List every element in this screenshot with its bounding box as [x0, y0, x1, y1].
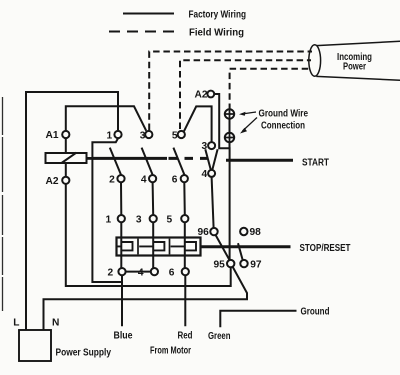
svg-text:1: 1	[106, 214, 112, 225]
svg-text:A2: A2	[45, 176, 58, 187]
svg-text:Connection: Connection	[261, 121, 305, 132]
svg-text:1: 1	[107, 130, 113, 141]
svg-text:98: 98	[250, 227, 262, 238]
svg-text:3: 3	[136, 214, 142, 225]
svg-text:Red: Red	[178, 331, 193, 342]
svg-text:2: 2	[109, 175, 115, 186]
svg-text:STOP/RESET: STOP/RESET	[300, 243, 352, 254]
svg-text:2: 2	[108, 268, 114, 279]
svg-text:3: 3	[202, 141, 208, 152]
svg-text:97: 97	[250, 259, 262, 270]
svg-text:L: L	[13, 318, 19, 329]
svg-text:A1: A1	[45, 130, 58, 141]
svg-text:4: 4	[141, 175, 147, 186]
svg-text:Factory Wiring: Factory Wiring	[189, 9, 247, 20]
svg-text:START: START	[302, 157, 330, 168]
svg-text:6: 6	[169, 268, 175, 279]
svg-text:Blue: Blue	[114, 331, 133, 342]
svg-text:Ground: Ground	[301, 306, 330, 317]
svg-text:96: 96	[197, 227, 209, 238]
svg-text:3: 3	[140, 130, 146, 141]
svg-text:5: 5	[167, 214, 173, 225]
svg-text:A2: A2	[194, 89, 207, 100]
svg-text:4: 4	[202, 169, 208, 180]
svg-text:Field Wiring: Field Wiring	[189, 27, 244, 38]
svg-text:4: 4	[138, 268, 144, 279]
svg-text:Power: Power	[343, 62, 366, 73]
svg-text:6: 6	[172, 175, 178, 186]
svg-text:Green: Green	[208, 331, 231, 342]
svg-text:Ground Wire: Ground Wire	[259, 109, 309, 120]
svg-text:N: N	[52, 318, 59, 329]
svg-text:5: 5	[172, 130, 178, 141]
svg-text:95: 95	[213, 259, 225, 270]
svg-text:From Motor: From Motor	[150, 346, 191, 357]
svg-text:Power Supply: Power Supply	[56, 347, 112, 358]
